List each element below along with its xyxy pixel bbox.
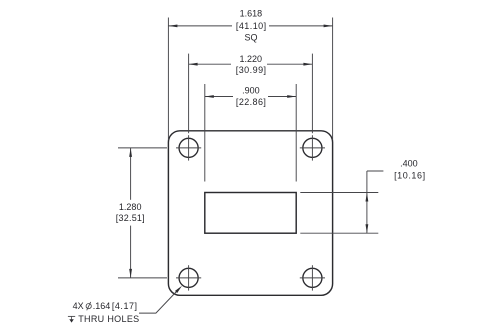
svg-text:1.280: 1.280	[119, 202, 142, 212]
svg-text:THRU HOLES: THRU HOLES	[78, 314, 139, 324]
hole top-left	[179, 138, 198, 157]
dimension 1.280 extension lines	[118, 148, 167, 278]
leader 4X holes	[139, 286, 182, 313]
svg-text:4X: 4X	[73, 301, 84, 311]
svg-text:.400: .400	[400, 159, 418, 169]
svg-text:[10.16]: [10.16]	[394, 171, 425, 181]
svg-text:[41.10]: [41.10]	[236, 21, 266, 31]
dimension .900 extension lines	[205, 84, 296, 182]
svg-text:.164: .164	[93, 301, 111, 311]
dimension .400 extension lines	[300, 193, 378, 234]
dimension 1.220 extension lines	[189, 54, 313, 134]
hole bottom-left	[179, 268, 198, 287]
diameter symbol	[86, 302, 91, 310]
dimension 1.618 SQ dimension line	[168, 25, 332, 28]
crosshair top-left hole	[176, 135, 201, 160]
hole top-right	[303, 138, 322, 157]
crosshair bottom-right hole	[300, 265, 325, 290]
svg-text:[22.86]: [22.86]	[236, 97, 266, 107]
svg-text:[30.99]: [30.99]	[236, 65, 266, 75]
hole bottom-right	[303, 268, 322, 287]
svg-text:.900: .900	[242, 85, 260, 95]
dimension 1.220 dimension line	[189, 63, 313, 66]
crosshair bottom-left hole	[176, 265, 201, 290]
crosshair top-right hole	[300, 135, 325, 160]
dimension 1.280 dimension line	[129, 148, 132, 278]
flange plate outline	[168, 131, 332, 295]
dimension .900 dimension line	[205, 95, 296, 98]
svg-text:[4.17]: [4.17]	[112, 301, 137, 311]
svg-text:1.618: 1.618	[240, 9, 263, 19]
waveguide aperture rectangle	[205, 193, 296, 234]
svg-text:SQ: SQ	[244, 33, 257, 43]
dimension 1.618 SQ extension lines	[168, 18, 332, 141]
svg-text:1.220: 1.220	[240, 54, 263, 64]
depth symbol	[68, 316, 75, 322]
svg-text:[32.51]: [32.51]	[116, 213, 145, 223]
dimension .400 dimension line and leader	[366, 171, 384, 233]
